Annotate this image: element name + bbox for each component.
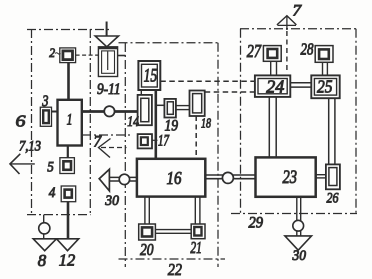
svg-text:8: 8 <box>38 251 47 270</box>
double wire 23 down to circle <box>297 197 301 221</box>
arrow 7 stem <box>286 16 288 30</box>
boundary dash-dot V2 <box>89 29 91 215</box>
svg-text:28: 28 <box>301 40 314 59</box>
double wire 24 to 23 <box>269 97 276 157</box>
svg-text:18: 18 <box>201 117 211 132</box>
circle above triangle 30 <box>293 220 304 231</box>
tie 17 to bus and label dash <box>152 139 158 141</box>
double wire 19 to 18 <box>176 106 190 110</box>
double wire circle to triangle 30 <box>297 231 301 236</box>
block 15 <box>138 61 160 90</box>
wire 1 to 14 <box>82 110 138 113</box>
double wire 28 to 25 <box>323 62 328 75</box>
double wire 20 to 21 <box>155 230 191 234</box>
svg-text:12: 12 <box>59 251 76 270</box>
wire circle 8 to triangle 8 <box>43 234 45 239</box>
block 20 <box>139 224 156 240</box>
boundary dash-dot H6 bottom right group 29 <box>231 213 357 215</box>
svg-text:17: 17 <box>158 133 170 150</box>
double wire arrow to circle to 16 <box>109 177 136 181</box>
svg-text:20: 20 <box>140 240 154 259</box>
wire 15 to 14 left <box>140 90 142 96</box>
boundary dash-dot H2 group 22 top <box>119 42 219 44</box>
boundary dash-dot H3 group 29 top <box>240 28 358 30</box>
boundary dash-dot V3 group 22 left <box>124 43 126 267</box>
double wire 24 to 25 <box>290 83 311 87</box>
label 2 tilde <box>55 53 61 54</box>
svg-text:21: 21 <box>190 238 202 257</box>
svg-text:25: 25 <box>317 77 333 97</box>
node circle on wire 1-14 <box>104 106 114 116</box>
block 2 <box>60 48 76 63</box>
double wire 16 to 21 <box>195 197 200 225</box>
wire 2 to 1 <box>67 63 70 100</box>
boundary dash-dot H1 top left <box>27 29 110 31</box>
node circle between 16 and 23 <box>222 172 233 183</box>
bus wire 15 down to 16 <box>155 90 158 159</box>
open dashed arrow 7 pointing left <box>99 139 111 158</box>
svg-text:22: 22 <box>168 260 183 279</box>
block 24 <box>255 75 290 97</box>
dashed vent wire 7 to 24 <box>286 31 288 74</box>
dashed wire into arrow 7 <box>101 147 127 149</box>
svg-text:9-11: 9-11 <box>97 81 121 98</box>
svg-text:27: 27 <box>247 41 262 61</box>
svg-text:29: 29 <box>249 215 264 232</box>
svg-text:7: 7 <box>94 134 103 151</box>
block 25 <box>311 75 339 98</box>
svg-text:26: 26 <box>327 190 339 206</box>
svg-text:4: 4 <box>49 185 56 201</box>
svg-text:7: 7 <box>293 3 303 20</box>
triangle 8 <box>33 239 56 251</box>
svg-text:5: 5 <box>47 160 54 176</box>
dashed wire 2 to 9-11 <box>76 54 99 56</box>
circle before triangle 8 <box>39 223 50 234</box>
wire 9-11 right stub <box>118 55 126 57</box>
triangle 12 <box>57 239 79 251</box>
svg-text:15: 15 <box>144 66 158 87</box>
wire 4 to triangle 12 <box>67 202 70 239</box>
wire into arrow 7,13 <box>10 163 35 165</box>
double wire 23 to 26 <box>316 175 326 178</box>
block 19 <box>164 99 176 118</box>
svg-text:6: 6 <box>16 112 27 131</box>
block 28 <box>315 46 333 63</box>
svg-text:7,13: 7,13 <box>19 139 41 155</box>
boundary dash-dot V6 group 29 right <box>355 29 357 214</box>
svg-text:30: 30 <box>104 193 119 209</box>
boundary dash-dot V5 group 29 left <box>240 29 242 214</box>
block 23 <box>256 157 316 196</box>
outline arrow 30 left of 16 <box>99 169 109 191</box>
boundary dash-dot V1 left enclosure <box>31 29 33 215</box>
dashed wire 15 to 24 <box>160 80 255 82</box>
arrow 7 baseline <box>278 24 297 26</box>
open arrow 7 up <box>277 16 297 25</box>
boundary dash-dot H4 <box>82 134 130 136</box>
svg-text:2: 2 <box>49 45 55 60</box>
boundary dash-dot V4 group 22 right <box>217 43 219 267</box>
double wire 16 to 23 <box>205 175 255 179</box>
block 16 <box>137 159 205 197</box>
node circle on V3 wire <box>119 174 129 184</box>
svg-text:14: 14 <box>127 114 139 130</box>
stub bus to 19 <box>157 104 164 106</box>
wire H6 to circle 8 <box>43 215 45 223</box>
block 9-11 <box>98 47 117 77</box>
svg-text:16: 16 <box>167 168 182 188</box>
block 14 <box>138 95 152 125</box>
intake funnel stem <box>106 22 108 37</box>
block 27 <box>263 46 281 62</box>
triangle 30 right <box>285 236 312 250</box>
dashed wire 18 to 16 <box>195 116 197 159</box>
double wire 27 to 24 <box>271 61 277 75</box>
wire 1 to 5 <box>67 146 69 158</box>
open arrow 7,13 <box>10 154 20 174</box>
dashed wire 18 to 24 <box>205 91 255 93</box>
intake funnel triangle <box>95 36 118 47</box>
wire 3 to 1 <box>52 111 58 113</box>
block 26 <box>326 164 340 189</box>
block 5 <box>60 158 75 174</box>
svg-text:3: 3 <box>42 93 49 110</box>
block 18 <box>190 91 205 117</box>
boundary dash-dot H6 bottom left <box>27 214 91 216</box>
block 3 <box>40 107 51 126</box>
double wire 25 to 26 <box>329 98 335 164</box>
block 1 <box>58 100 82 146</box>
svg-text:23: 23 <box>283 167 298 188</box>
block 17 <box>138 134 152 148</box>
svg-text:1: 1 <box>67 112 73 129</box>
block 21 <box>191 224 205 239</box>
double wire 16 to 20 <box>145 197 149 224</box>
svg-text:30: 30 <box>292 248 307 264</box>
svg-text:24: 24 <box>266 77 284 97</box>
block 4 <box>61 186 75 202</box>
boundary dash-dot H7 group 22 bottom <box>119 258 226 260</box>
